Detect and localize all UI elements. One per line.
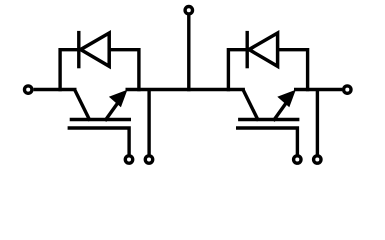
IGBT Q1 emitter arrowhead (109, 90, 128, 108)
IGBT Q1 collector diagonal (74, 89, 90, 121)
diode D2 triangle (249, 33, 278, 66)
terminal node G1 (left gate) (125, 156, 132, 163)
wire collector C1 to Q1 (34, 88, 77, 91)
wire emitter output to terminal (294, 88, 342, 91)
IGBT Q2 emitter arrow shaft (273, 101, 288, 121)
IGBT Q1 channel bar (70, 118, 131, 122)
IGBT Q2 collector diagonal (243, 89, 259, 121)
IGBT Q2 emitter arrowhead (277, 90, 296, 108)
wire midpoint terminal down (187, 14, 190, 91)
IGBT Q1 gate plate and gate wire (68, 128, 130, 156)
diode D1 cathode bar (77, 31, 80, 68)
terminal node AC (top midpoint) (185, 7, 192, 14)
diode D1 triangle (81, 33, 110, 66)
wire loop Q1/D1 (left vertical, diode wire, right vertical) (60, 50, 139, 91)
IGBT Q2 gate plate and gate wire (236, 128, 297, 156)
wire loop Q2/D2 (left vertical, diode wire, right vertical) (228, 50, 307, 91)
wire auxiliary emitter E2 (316, 90, 319, 157)
terminal node G2 (right gate) (294, 156, 301, 163)
wire midpoint bus (126, 88, 245, 91)
IGBT Q2 channel bar (238, 118, 299, 122)
terminal node E (right emitter output) (344, 86, 351, 93)
diode D2 cathode bar (245, 31, 248, 68)
IGBT Q1 emitter arrow shaft (105, 101, 120, 121)
terminal node E1 (left aux emitter) (145, 156, 152, 163)
terminal node C1 (left collector) (25, 86, 32, 93)
wire auxiliary emitter E1 (147, 90, 150, 157)
terminal node E2 (right aux emitter) (314, 156, 321, 163)
